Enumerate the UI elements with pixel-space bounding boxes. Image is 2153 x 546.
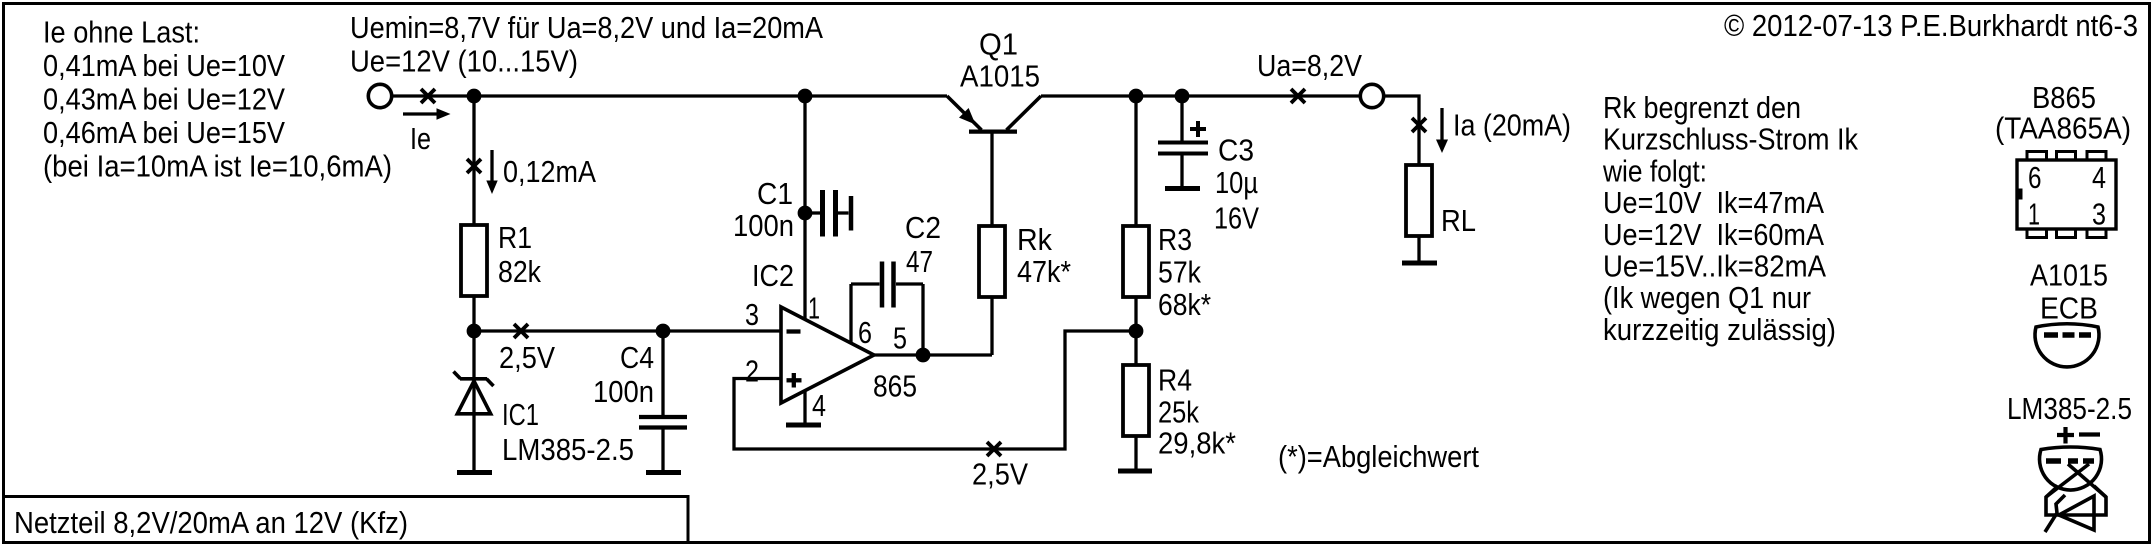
svg-text:Uemin=8,7V für Ua=8,2V und Ia=: Uemin=8,7V für Ua=8,2V und Ia=20mA (350, 10, 823, 45)
node R3 R4 (1129, 324, 1144, 339)
input terminal (368, 84, 391, 107)
wire output to Rk (990, 297, 993, 355)
wire input rail (392, 94, 947, 97)
arrow Ie (403, 108, 451, 119)
svg-text:Ue=12V (10...15V): Ue=12V (10...15V) (350, 44, 578, 79)
svg-text:3: 3 (745, 297, 759, 332)
svg-text:6: 6 (2028, 160, 2042, 195)
svg-text:LM385-2.5: LM385-2.5 (2007, 391, 2132, 426)
ground C3 (1165, 186, 1200, 191)
resistor R1 (461, 225, 487, 296)
svg-text:2,5V: 2,5V (499, 340, 555, 375)
svg-text:Ue=15V..Ik=82mA: Ue=15V..Ik=82mA (1603, 249, 1826, 284)
svg-text:6: 6 (858, 315, 872, 350)
svg-text:47: 47 (906, 244, 933, 279)
svg-text:0,12mA: 0,12mA (503, 154, 596, 189)
svg-text:2,5V: 2,5V (972, 457, 1028, 492)
title box (4, 497, 689, 543)
svg-text:C4: C4 (620, 340, 654, 375)
svg-text:Netzteil 8,2V/20mA an 12V (Kfz: Netzteil 8,2V/20mA an 12V (Kfz) (14, 505, 408, 540)
svg-text:Rk begrenzt den: Rk begrenzt den (1603, 90, 1801, 125)
svg-text:100n: 100n (733, 208, 794, 243)
wire Rk to Q1 base (990, 133, 993, 226)
svg-text:4: 4 (2092, 160, 2106, 195)
wire R4 top (1134, 331, 1137, 365)
svg-text:ECB: ECB (2040, 291, 2098, 326)
capacitor C4 (639, 331, 687, 471)
node input junction (467, 89, 482, 104)
wire R4 bottom (1134, 436, 1137, 469)
transistor package A1015 (2035, 324, 2099, 367)
ground IC1 (457, 470, 492, 475)
node 2,5V (467, 324, 482, 339)
svg-text:2: 2 (745, 354, 759, 389)
svg-text:(bei Ia=10mA ist Ie=10,6mA): (bei Ia=10mA ist Ie=10,6mA) (43, 149, 392, 184)
test point Ie (421, 89, 435, 103)
wire collector rail (1041, 94, 1361, 97)
transistor Q1 (947, 96, 1041, 132)
svg-text:C1: C1 (757, 176, 793, 211)
svg-text:0,46mA bei Ue=15V: 0,46mA bei Ue=15V (43, 115, 285, 150)
node C4 (656, 324, 671, 339)
note Rk begrenzt (1602, 90, 1858, 347)
svg-text:Rk: Rk (1017, 222, 1052, 257)
svg-text:Ue=12V Ik=60mA: Ue=12V Ik=60mA (1603, 217, 1824, 252)
svg-text:Ia (20mA): Ia (20mA) (1453, 108, 1571, 143)
svg-text:29,8k*: 29,8k* (1158, 426, 1236, 461)
reference package LM385 (2040, 447, 2106, 532)
note Uemin (350, 10, 823, 79)
svg-text:47k*: 47k* (1017, 254, 1071, 289)
svg-text:1: 1 (2028, 197, 2040, 232)
resistor Rk (979, 226, 1005, 297)
svg-text:Ie: Ie (410, 121, 431, 156)
test point 0,12mA (467, 159, 481, 173)
svg-text:C2: C2 (905, 210, 941, 245)
ground C4 (646, 470, 681, 475)
svg-text:(TAA865A): (TAA865A) (1995, 111, 2131, 146)
wire op-amp output (874, 353, 992, 356)
wire 2,5V net to op-amp pin 3 (474, 329, 781, 332)
svg-text:4: 4 (812, 388, 826, 423)
svg-text:(Ik wegen Q1 nur: (Ik wegen Q1 nur (1603, 280, 1811, 315)
node R3 (1129, 89, 1144, 104)
zener IC1 (454, 331, 494, 470)
wire output to RL (1384, 96, 1419, 165)
svg-text:Ie ohne Last:: Ie ohne Last: (43, 15, 200, 50)
op-amp U1 IC2 (781, 307, 874, 403)
svg-text:R4: R4 (1158, 363, 1192, 398)
svg-text:10µ: 10µ (1215, 165, 1258, 200)
svg-text:kurzzeitig zulässig): kurzzeitig zulässig) (1603, 312, 1836, 347)
svg-text:(*)=Abgleichwert: (*)=Abgleichwert (1278, 439, 1479, 474)
svg-text:R3: R3 (1158, 222, 1192, 257)
wire R3 bottom (1134, 297, 1137, 331)
node output C2 (916, 348, 931, 363)
wire R1 branch (472, 96, 475, 225)
svg-text:A1015: A1015 (2030, 258, 2108, 293)
svg-text:IC1: IC1 (502, 397, 539, 432)
svg-text:R1: R1 (498, 220, 532, 255)
wire pin 4 stub (803, 391, 806, 423)
capacitor C2 (851, 262, 923, 356)
svg-text:1: 1 (808, 291, 820, 326)
arrow 0,12mA (486, 150, 497, 194)
svg-text:Q1: Q1 (979, 27, 1018, 62)
svg-text:68k*: 68k* (1158, 287, 1211, 322)
ground RL (1402, 261, 1437, 266)
svg-text:16V: 16V (1214, 201, 1259, 236)
node C3 (1175, 89, 1190, 104)
ground R4 (1118, 469, 1152, 474)
svg-text:IC2: IC2 (752, 258, 794, 293)
resistor R3 (1123, 226, 1149, 297)
svg-text:Ue=10V Ik=47mA: Ue=10V Ik=47mA (1603, 185, 1824, 220)
svg-text:82k: 82k (498, 254, 541, 289)
polarity marks LM385 (2057, 427, 2100, 444)
svg-text:0,43mA bei Ue=12V: 0,43mA bei Ue=12V (43, 82, 285, 117)
svg-text:5: 5 (893, 321, 907, 356)
capacitor C3 (1158, 96, 1208, 187)
svg-text:3: 3 (2092, 197, 2106, 232)
wire R3 lead (1134, 96, 1137, 226)
node C1 (798, 206, 813, 221)
svg-text:Ua=8,2V: Ua=8,2V (1257, 48, 1362, 83)
note Ie ohne Last (43, 15, 392, 184)
node rail pin1 (798, 89, 813, 104)
svg-text:LM385-2.5: LM385-2.5 (502, 432, 634, 467)
svg-text:100n: 100n (593, 374, 654, 409)
svg-text:© 2012-07-13 P.E.Burkhardt nt6: © 2012-07-13 P.E.Burkhardt nt6-3 (1724, 8, 2138, 43)
test point 2,5V feedback (987, 442, 1001, 456)
svg-text:RL: RL (1441, 203, 1476, 238)
wire RL bottom (1417, 236, 1420, 261)
test point Ua (1291, 89, 1305, 103)
svg-text:A1015: A1015 (960, 59, 1040, 94)
IC package B865 (2016, 152, 2116, 238)
svg-text:Kurzschluss-Strom Ik: Kurzschluss-Strom Ik (1603, 122, 1858, 157)
svg-text:865: 865 (873, 369, 917, 404)
test point 2,5V (514, 324, 528, 338)
svg-text:25k: 25k (1158, 395, 1199, 430)
resistor R4 (1123, 365, 1149, 436)
wire op-amp pin 1 (803, 96, 806, 319)
svg-text:C3: C3 (1218, 133, 1254, 168)
resistor RL (1406, 165, 1432, 236)
svg-text:57k: 57k (1158, 255, 1201, 290)
output terminal (1360, 84, 1383, 107)
svg-text:wie folgt:: wie folgt: (1602, 153, 1707, 188)
capacitor C1 (805, 190, 851, 237)
wire R1 to 2,5V node (472, 296, 475, 331)
ground IC2 (786, 423, 821, 428)
svg-text:0,41mA bei Ue=10V: 0,41mA bei Ue=10V (43, 48, 285, 83)
test point Ia (1412, 118, 1426, 132)
wire pin 2 bracket (734, 331, 1136, 449)
arrow Ia (1436, 108, 1448, 153)
